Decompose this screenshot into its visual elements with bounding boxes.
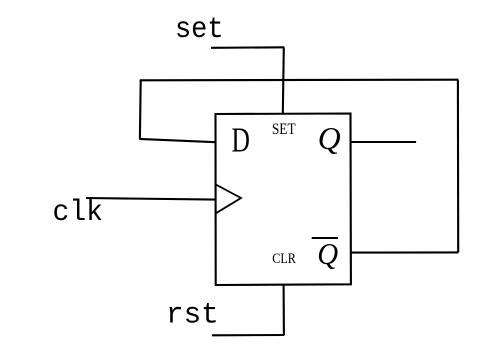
wire feedback top horizontal	[140, 79, 459, 82]
svg-text:Q: Q	[318, 120, 341, 156]
wire set horizontal	[211, 46, 284, 49]
svg-text:CLR: CLR	[272, 251, 296, 267]
svg-text:clk: clk	[53, 195, 104, 229]
wire D input	[139, 139, 215, 142]
wire set vertical to SET pin	[283, 47, 284, 114]
wire rst horizontal	[212, 334, 284, 336]
clock edge triangle	[216, 185, 241, 214]
wire clk	[86, 198, 216, 200]
svg-text:set: set	[175, 12, 224, 46]
wire feedback left vertical	[139, 80, 142, 139]
wire Q output	[351, 141, 416, 143]
wire feedback right vertical	[457, 80, 459, 253]
wire Qbar output	[351, 251, 458, 253]
svg-text:Q: Q	[317, 236, 338, 271]
svg-text:SET: SET	[272, 119, 296, 138]
svg-text:rst: rst	[166, 298, 219, 332]
Qbar overline	[312, 237, 338, 239]
flip-flop body U1	[216, 114, 351, 286]
wire rst vertical from CLR pin	[283, 285, 285, 335]
svg-text:D: D	[232, 121, 250, 160]
